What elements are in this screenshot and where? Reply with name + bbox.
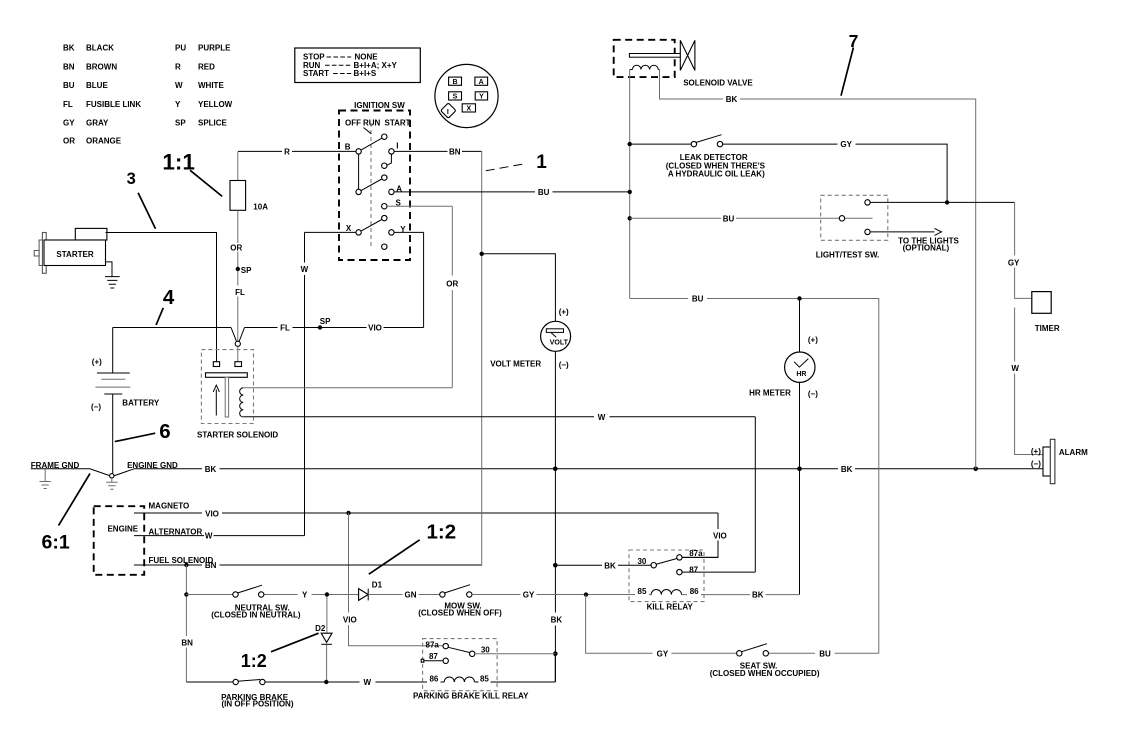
svg-text:BU: BU [538,188,550,197]
junction ground/solenoid-valve BK [973,467,978,472]
svg-text:OR: OR [446,280,458,289]
parking brake switch [186,681,233,683]
wire R from fuse to ignition B [238,150,356,152]
wire OR/FL below fuse [237,210,239,341]
svg-text:WHITE: WHITE [198,81,224,90]
svg-text:GRAY: GRAY [86,119,109,128]
engine E1 [94,506,145,575]
svg-text:GY: GY [840,140,852,149]
timer [1032,292,1051,314]
svg-text:87a: 87a [426,640,440,649]
svg-text:(+): (+) [92,358,102,367]
svg-text:START: START [385,118,411,127]
wire Y to ignition [394,232,423,327]
ignition terminal contacts [382,134,387,139]
svg-text:86: 86 [429,675,438,684]
svg-text:STARTER SOLENOID: STARTER SOLENOID [197,430,278,439]
svg-text:BU: BU [63,81,75,90]
svg-text:(OPTIONAL): (OPTIONAL) [903,243,950,252]
wire voltmeter negative / BK down to relays [554,351,556,682]
svg-text:W: W [364,678,372,687]
svg-text:(+): (+) [559,307,569,316]
svg-text:Y: Y [175,100,181,109]
svg-text:GY: GY [1008,258,1020,267]
junction VIO tee [346,511,350,515]
svg-text:W: W [598,413,606,422]
battery B1 [112,328,114,374]
svg-text:(−): (−) [559,361,569,370]
svg-text:BK: BK [205,465,217,474]
plug pin I (diamond) [441,103,456,118]
svg-text:BN: BN [205,561,217,570]
svg-text:OFF: OFF [345,118,361,127]
svg-text:BK: BK [63,44,75,53]
hour meter [799,299,801,353]
svg-text:W: W [175,81,183,90]
svg-text:X: X [466,106,471,113]
junction diode D2 bottom [324,680,328,684]
wire W up to ignition X [305,232,356,535]
svg-text:OR: OR [230,243,242,252]
svg-text:Y: Y [479,94,484,101]
svg-text:Y: Y [302,591,308,600]
svg-text:10A: 10A [253,203,268,212]
svg-text:BATTERY: BATTERY [122,399,160,408]
svg-text:START: START [303,69,329,78]
junction neutral switch tee [184,592,188,596]
svg-text:BU: BU [692,295,704,304]
svg-text:MAGNETO: MAGNETO [149,501,190,510]
svg-text:A: A [479,79,484,86]
starter M1 [34,228,107,273]
svg-text:85: 85 [638,587,647,596]
junction hour meter feed [797,296,801,300]
svg-text:I: I [396,142,398,151]
svg-text:1:2: 1:2 [241,651,267,671]
plug pin S [449,92,462,100]
parking brake kill relay K2 [413,639,555,701]
svg-text:BROWN: BROWN [86,62,117,71]
svg-text:(IN OFF POSITION): (IN OFF POSITION) [222,700,294,709]
fuse F1 10A [230,181,246,211]
svg-text:KILL RELAY: KILL RELAY [647,603,694,612]
diode D1 [359,589,369,601]
svg-text:A HYDRAULIC OIL LEAK): A HYDRAULIC OIL LEAK) [668,170,765,179]
wire BK to kill relay 30 [555,564,651,566]
svg-text:W: W [1011,364,1019,373]
ignition OFF link line [364,128,372,134]
svg-text:FUSIBLE LINK: FUSIBLE LINK [86,100,141,109]
wire GY mow to kill relay coil [472,594,800,596]
junction diode D2 tap [325,592,329,596]
svg-text:R: R [175,62,181,71]
starter ground [105,262,120,288]
svg-text:RED: RED [198,62,215,71]
wire battery positive FL [113,328,424,342]
junction fuel solenoid tee [184,563,188,567]
svg-text:B: B [345,143,351,152]
ignition pole link B [358,151,360,192]
svg-text:PU: PU [175,44,186,53]
svg-text:BU: BU [819,649,831,658]
light/test switch [630,195,1015,259]
svg-text:(CLOSED WHEN OCCUPIED): (CLOSED WHEN OCCUPIED) [710,669,820,678]
wire VIO down to parking brake kill relay 87a [349,513,444,646]
svg-text:LEAK DETECTOR: LEAK DETECTOR [680,153,748,162]
junction BU light/test [628,216,632,220]
wire BU ignition A [394,191,630,193]
svg-text:BN: BN [63,62,75,71]
plug pin X [462,104,475,112]
junction voltmeter feed [480,252,484,256]
svg-text:(−): (−) [91,403,101,412]
svg-text:BK: BK [752,591,764,600]
plug pin Y [475,92,487,100]
leak detector switch [630,135,947,203]
svg-text:VIO: VIO [343,615,357,624]
svg-text:3: 3 [127,170,136,188]
wire GN to mow switch [368,594,440,596]
svg-text:FL: FL [235,288,245,297]
wire OR ignition S to solenoid coil [243,206,452,388]
svg-text:GY: GY [657,649,669,658]
wire BK solenoid valve to ground [660,70,976,469]
svg-text:GY: GY [63,119,75,128]
svg-text:SP: SP [320,317,331,326]
wire starter to solenoid terminal [106,233,217,362]
ignition blade 2 [359,178,385,192]
svg-text:HR METER: HR METER [749,389,791,398]
svg-text:6: 6 [159,420,170,443]
svg-text:TIMER: TIMER [1035,324,1060,333]
ignition switch IGNITION SW [339,101,411,260]
svg-text:YELLOW: YELLOW [198,100,233,109]
svg-text:FL: FL [63,100,73,109]
kill relay K1 [629,549,755,611]
svg-text:GN: GN [405,591,417,600]
junction kill relay 30 feed [553,563,558,568]
svg-text:PARKING BRAKE KILL RELAY: PARKING BRAKE KILL RELAY [413,691,529,700]
svg-text:ALTERNATOR: ALTERNATOR [149,527,203,536]
connector plug [435,64,498,127]
wire W solenoid coil to kill relay 87 [243,417,755,572]
svg-text:W: W [205,532,213,541]
svg-text:SPLICE: SPLICE [198,119,228,128]
fuse top wire [237,152,239,181]
junction BK parking brake relay [553,651,558,656]
volt meter [541,321,571,351]
junction BU ignition A [628,190,632,194]
svg-text:BLACK: BLACK [86,44,114,53]
mow switch [444,585,470,593]
svg-text:I: I [447,109,449,116]
svg-text:85: 85 [480,675,489,684]
svg-text:RUN: RUN [363,118,381,127]
svg-text:(CLOSED WHEN OFF): (CLOSED WHEN OFF) [418,608,502,617]
svg-text:30: 30 [637,557,646,566]
svg-text:D2: D2 [315,624,326,633]
splice SP on battery wire [318,325,322,329]
svg-text:(−): (−) [808,389,818,398]
junction light/test top [945,200,949,204]
svg-text:VIO: VIO [368,323,382,332]
svg-text:FL: FL [280,324,290,333]
junction leak detector [628,142,632,146]
svg-text:PURPLE: PURPLE [198,44,231,53]
svg-text:VIO: VIO [713,532,727,541]
wire BU main lower [630,299,879,654]
svg-text:1:2: 1:2 [426,520,456,543]
svg-text:BK: BK [604,561,616,570]
switch position table [295,48,421,83]
solenoid valve SV1 [614,40,754,88]
wire BN vertical to fuel solenoid [481,151,483,565]
svg-text:D1: D1 [372,581,383,590]
ignition I contact link [387,151,392,165]
svg-text:1: 1 [536,152,547,173]
connector junction at starter solenoid [235,341,240,346]
svg-text:BLUE: BLUE [86,81,108,90]
svg-text:B+I+S: B+I+S [354,69,377,78]
main ground wire BK [31,469,1043,476]
svg-text:BN: BN [449,147,461,156]
wire GY to seat switch [586,595,879,654]
svg-text:(CLOSED IN NEUTRAL): (CLOSED IN NEUTRAL) [211,610,301,619]
svg-text:GY: GY [523,591,535,600]
svg-text:B: B [452,79,457,86]
svg-text:SP: SP [175,119,186,128]
starter solenoid [197,350,278,440]
svg-text:87a: 87a [689,549,703,558]
svg-text:FUEL SOLENOID: FUEL SOLENOID [149,556,214,565]
diode D2 [326,597,328,682]
svg-text:BK: BK [841,465,853,474]
junction seat switch tee [584,592,588,596]
svg-text:87: 87 [689,565,698,574]
ignition blade X [359,218,385,232]
svg-text:S: S [453,94,458,101]
svg-text:IGNITION SW: IGNITION SW [354,101,405,110]
svg-text:BU: BU [723,214,735,223]
svg-text:SP: SP [241,266,252,275]
svg-text:STARTER: STARTER [56,250,93,259]
neutral switch [186,594,358,596]
ignition RUN position dashed line [370,123,372,249]
svg-text:LIGHT/TEST SW.: LIGHT/TEST SW. [816,251,880,260]
svg-text:6:1: 6:1 [42,532,70,554]
svg-text:VOLT: VOLT [550,339,569,346]
wire BN ignition I [394,150,482,152]
plug pin A [475,77,488,85]
alarm [1031,439,1088,483]
wire VIO down to kill relay 87a [682,513,718,557]
svg-text:VIO: VIO [205,509,219,518]
svg-text:86: 86 [690,587,699,596]
wire GY to timer [1015,202,1043,454]
splice SP on fuse wire [236,267,240,271]
plug pin B [449,77,462,85]
wire color legend column 2 [175,44,233,128]
svg-text:(+): (+) [808,336,818,345]
ignition blade B [359,137,385,152]
svg-text:30: 30 [481,645,490,654]
wire BU vertical from solenoid valve [629,70,631,299]
junction ground/hourmeter [797,467,802,472]
svg-text:BN: BN [181,638,193,647]
svg-text:BK: BK [726,95,738,104]
svg-text:(−): (−) [1031,460,1041,469]
svg-text:BK: BK [551,616,563,625]
svg-text:(+): (+) [1031,447,1041,456]
svg-text:ORANGE: ORANGE [86,137,122,146]
svg-text:ALARM: ALARM [1059,448,1088,457]
wire BN down to neutral switch [185,565,187,682]
battery negative wire [112,394,114,474]
seat switch [741,644,767,652]
svg-text:HR: HR [796,371,806,378]
svg-text:R: R [284,147,290,156]
svg-text:VOLT METER: VOLT METER [490,359,541,368]
svg-text:87: 87 [429,652,438,661]
svg-text:ENGINE: ENGINE [107,525,138,534]
wire voltmeter feed [482,254,556,321]
junction ground/voltmeter [553,467,558,472]
svg-text:4: 4 [163,286,175,309]
svg-text:SOLENOID VALVE: SOLENOID VALVE [683,79,753,88]
svg-text:X: X [346,224,352,233]
wire color legend column 1 [63,44,141,146]
svg-text:W: W [301,265,309,274]
svg-text:OR: OR [63,137,75,146]
wire hour meter negative to ground and kill relay [799,382,801,594]
